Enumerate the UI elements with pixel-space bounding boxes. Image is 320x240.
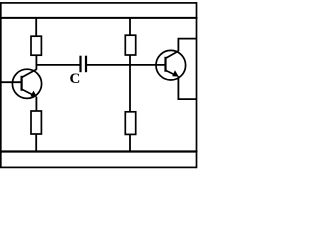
label C <box>70 71 81 87</box>
capacitor C left plate <box>79 56 81 72</box>
wire: Q2 emitter down and to right border <box>178 76 196 99</box>
capacitor C right plate <box>85 56 87 72</box>
transistor Q2 circle <box>156 50 186 80</box>
svg-text:C: C <box>70 71 81 87</box>
wire: R4 to bottom rail <box>129 134 131 151</box>
wire: Q2 collector up and to right border <box>178 39 196 52</box>
wire: capacitor right plate to Q2 base (through node at middle column) <box>87 64 166 66</box>
wire: top rail to R3 <box>129 18 131 36</box>
bottom ground rail wire <box>1 150 198 152</box>
transistor Q2 collector lead <box>166 51 179 58</box>
wire: Q1 collector node to capacitor left plate <box>36 64 80 66</box>
wire: R1 to Q1 collector (node with capacitor) <box>35 55 37 70</box>
wire: R3 through base node to R4 <box>129 55 131 112</box>
resistor R3 (top middle) <box>125 35 135 55</box>
transistor Q1 emitter lead with arrow <box>22 89 37 97</box>
frame border <box>1 3 197 168</box>
transistor Q1 collector lead <box>22 69 37 77</box>
transistor Q1 base bar <box>21 76 23 91</box>
wire: Q1 emitter to R2 <box>35 97 37 112</box>
resistor R2 (bottom left, emitter) <box>31 111 41 134</box>
wire: left border to Q1 base <box>1 81 22 83</box>
transistor Q2 emitter lead with arrow <box>166 70 179 76</box>
resistor R4 (bottom middle) <box>125 112 135 135</box>
transistor Q1 circle <box>12 69 41 98</box>
resistor R1 (top left, collector load) <box>31 36 41 55</box>
wire: R2 to bottom rail <box>35 134 37 152</box>
transistor Q2 base bar <box>164 57 166 72</box>
top supply rail wire <box>1 17 198 19</box>
wire: top rail to R1 <box>35 18 37 37</box>
